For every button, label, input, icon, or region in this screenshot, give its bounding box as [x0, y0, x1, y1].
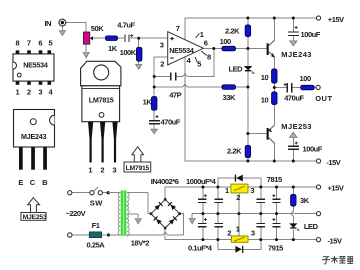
- svg-text:3: 3: [160, 41, 164, 50]
- svg-text:3: 3: [38, 87, 42, 96]
- svg-text:0.25A: 0.25A: [87, 241, 106, 250]
- svg-text:LM7915: LM7915: [126, 165, 150, 172]
- svg-text:LM7815: LM7815: [89, 95, 114, 104]
- svg-text:7: 7: [27, 38, 31, 47]
- svg-text:+15V: +15V: [328, 15, 344, 24]
- svg-text:+15V: +15V: [328, 184, 344, 193]
- svg-text:100uF: 100uF: [301, 30, 321, 39]
- svg-text:100: 100: [300, 74, 311, 83]
- svg-text:50K: 50K: [91, 24, 104, 33]
- svg-text:8: 8: [207, 53, 211, 62]
- svg-text:MJE253: MJE253: [23, 214, 47, 221]
- svg-text:100uF: 100uF: [303, 144, 323, 153]
- svg-text:0.1uF*4: 0.1uF*4: [188, 243, 213, 252]
- svg-text:3: 3: [250, 186, 254, 195]
- svg-text:1000uF*4: 1000uF*4: [186, 177, 217, 186]
- svg-text:470uF: 470uF: [161, 118, 181, 127]
- svg-text:3: 3: [251, 228, 255, 237]
- svg-text:6: 6: [38, 38, 42, 47]
- svg-text:1: 1: [236, 224, 240, 233]
- svg-text:NE5534: NE5534: [23, 60, 48, 69]
- svg-text:2: 2: [160, 59, 164, 68]
- svg-text:3: 3: [112, 165, 116, 174]
- svg-text:LED: LED: [304, 222, 319, 231]
- svg-text:~220V: ~220V: [66, 209, 86, 218]
- svg-text:MJE253: MJE253: [281, 122, 312, 131]
- svg-text:5: 5: [49, 38, 53, 47]
- svg-text:2: 2: [27, 87, 31, 96]
- svg-text:NE5534: NE5534: [169, 46, 194, 55]
- svg-text:3K: 3K: [300, 196, 310, 205]
- svg-text:1: 1: [88, 165, 92, 174]
- svg-text:10: 10: [261, 73, 269, 82]
- svg-text:33K: 33K: [223, 93, 236, 102]
- svg-text:IN4002*6: IN4002*6: [151, 177, 179, 186]
- svg-text:MJE243: MJE243: [281, 50, 312, 59]
- svg-text:2.2K: 2.2K: [227, 146, 242, 155]
- svg-text:2: 2: [236, 193, 240, 202]
- svg-text:6: 6: [204, 39, 208, 48]
- svg-text:470uF: 470uF: [284, 94, 304, 103]
- svg-text:1: 1: [225, 186, 229, 195]
- svg-text:IN: IN: [45, 19, 52, 28]
- svg-text:SW: SW: [90, 198, 104, 207]
- svg-text:10: 10: [261, 95, 269, 104]
- svg-text:47P: 47P: [169, 91, 181, 100]
- svg-text:5: 5: [197, 60, 201, 69]
- svg-text:4.7uF: 4.7uF: [117, 21, 135, 30]
- svg-text:1K: 1K: [143, 98, 153, 107]
- svg-text:E: E: [18, 178, 23, 187]
- svg-text:2.2K: 2.2K: [225, 26, 240, 35]
- svg-text:LED: LED: [229, 65, 244, 74]
- svg-text:1K: 1K: [108, 44, 118, 53]
- svg-text:7815: 7815: [267, 175, 282, 184]
- svg-text:100: 100: [220, 37, 231, 46]
- svg-text:18V*2: 18V*2: [131, 238, 149, 247]
- svg-text:-15V: -15V: [326, 158, 340, 167]
- svg-text:8: 8: [16, 38, 20, 47]
- svg-text:1: 1: [16, 87, 20, 96]
- svg-text:7915: 7915: [268, 244, 283, 253]
- svg-text:2: 2: [100, 165, 104, 174]
- svg-text:F1: F1: [92, 221, 100, 230]
- svg-text:-15V: -15V: [328, 236, 342, 245]
- svg-text:MJE243: MJE243: [21, 132, 47, 141]
- svg-text:7: 7: [176, 24, 180, 33]
- svg-text:100K: 100K: [120, 48, 137, 57]
- svg-text:OUT: OUT: [315, 94, 332, 103]
- svg-text:2: 2: [227, 228, 231, 237]
